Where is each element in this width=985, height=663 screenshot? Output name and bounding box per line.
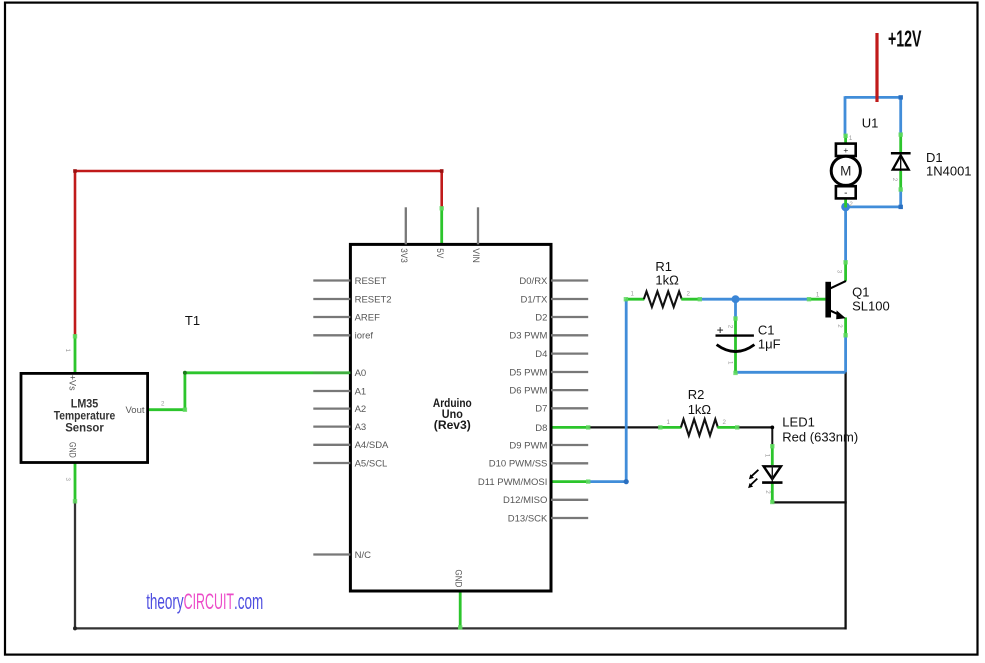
logo theoryCIRCUIT.com: [146, 589, 263, 614]
resistor R1 1k zigzag: [626, 291, 700, 307]
svg-text:GND: GND: [452, 570, 463, 588]
transistor Q1 SL100 NPN: [809, 261, 846, 337]
pin D13/SCK (Arduino right): [508, 513, 588, 524]
svg-text:1kΩ: 1kΩ: [655, 272, 679, 287]
wire blue: motor/diode top horizontal: [845, 96, 901, 99]
svg-text:D4: D4: [535, 349, 547, 360]
svg-text:D11 PWM/MOSI: D11 PWM/MOSI: [478, 477, 548, 488]
wire blue: R1 to Q1 base: [700, 298, 809, 301]
wire blue: Arduino D11 to riser: [588, 480, 626, 483]
label Arduino Uno (Rev3): [433, 396, 472, 432]
svg-text:1: 1: [726, 361, 733, 365]
pin D9 PWM (Arduino right): [509, 440, 588, 451]
svg-text:D0/RX: D0/RX: [519, 276, 548, 287]
svg-text:LED1: LED1: [782, 415, 815, 430]
svg-text:-: -: [844, 188, 847, 199]
wire red: down to LM35 +Vs: [74, 170, 77, 336]
wire green: Arduino 5V pin: [440, 207, 443, 245]
svg-text:3: 3: [836, 270, 843, 274]
wire green: +Vs pin of LM35: [74, 335, 77, 374]
wire green: Arduino D11 pin stub: [551, 480, 588, 483]
pin +Vs (LM35 top): [67, 375, 78, 391]
wire: R2 to LED corner: [737, 426, 772, 428]
svg-text:2: 2: [764, 490, 771, 494]
wire: LED cathode to right vertical: [772, 501, 846, 503]
svg-text:R2: R2: [688, 387, 705, 402]
svg-text:2: 2: [687, 291, 691, 298]
wire green: Vout up and over to A0: [185, 373, 351, 411]
pin A0 (Arduino left): [313, 368, 366, 379]
svg-text:C1: C1: [758, 323, 775, 338]
pin numbers (tiny gray): [64, 135, 898, 494]
resistor R2 1k zigzag: [660, 419, 737, 435]
svg-text:1kΩ: 1kΩ: [688, 402, 712, 417]
svg-text:AREF: AREF: [355, 312, 381, 323]
label R1 1k: [655, 259, 679, 288]
pin D8 (Arduino right): [535, 423, 547, 434]
wire blue: motor bottom node down to Q1 collector: [844, 207, 847, 263]
svg-text:D3 PWM: D3 PWM: [509, 331, 547, 342]
svg-text:3: 3: [64, 478, 71, 482]
svg-text:1N4001: 1N4001: [926, 164, 972, 179]
diode D1 1N4001: [891, 133, 911, 191]
svg-text:5V: 5V: [434, 248, 445, 259]
pin D6 PWM (Arduino right): [509, 386, 588, 397]
wire blue: top to diode cathode: [899, 96, 902, 134]
svg-text:+Vs: +Vs: [67, 375, 78, 391]
svg-text:ioref: ioref: [355, 331, 374, 342]
bendpoint blue top-right: [899, 95, 903, 99]
pin D10 PWM/SS (Arduino right): [489, 459, 588, 470]
svg-text:1: 1: [816, 291, 820, 298]
corner dots black: [770, 426, 774, 430]
svg-text:1μF: 1μF: [758, 337, 781, 352]
svg-text:A4/SDA: A4/SDA: [355, 440, 389, 451]
pin D2 (Arduino right): [535, 312, 588, 323]
pin N/C (Arduino left): [313, 550, 371, 561]
junction dot motor bottom node: [841, 203, 850, 212]
motor U1: [831, 134, 860, 207]
svg-text:A1: A1: [355, 386, 367, 397]
label LED1 Red 633nm: [782, 415, 858, 445]
svg-text:Red (633nm): Red (633nm): [782, 429, 858, 444]
svg-text:SL100: SL100: [852, 298, 890, 313]
pin AREF (Arduino left): [313, 312, 380, 323]
wire green: LM35 Vout stub: [147, 408, 185, 411]
wire red: 5V rail horizontal: [75, 170, 442, 173]
wire green: Arduino GND down to ground bus: [459, 591, 462, 628]
pin D11 PWM/MOSI (Arduino right): [478, 477, 548, 488]
svg-text:Q1: Q1: [852, 285, 869, 300]
pin 5V (Arduino top): [434, 248, 445, 259]
pin D4 (Arduino right): [535, 349, 588, 360]
bendpoint green Vout corner: [183, 371, 187, 375]
wire blue: C1 minus to emitter node horizontal: [736, 371, 846, 374]
svg-text:D5 PWM: D5 PWM: [509, 367, 547, 378]
svg-text:D7: D7: [535, 404, 547, 415]
svg-text:2: 2: [836, 324, 843, 328]
svg-text:RESET2: RESET2: [355, 294, 392, 305]
svg-text:+: +: [843, 145, 848, 155]
svg-text:T1: T1: [185, 313, 200, 328]
svg-text:D1/TX: D1/TX: [520, 294, 548, 305]
label R2 1k: [688, 387, 712, 417]
pin A4/SDA (Arduino left): [313, 440, 389, 451]
bendpoint blue riser bottom: [624, 479, 629, 484]
pin D3 PWM (Arduino right): [509, 331, 588, 342]
wire blue: riser up to R1 pin1: [625, 299, 628, 483]
wire green: Arduino D8 pin stub: [551, 426, 588, 429]
wire: corner down to LED anode: [771, 427, 773, 446]
pin D0/RX (Arduino right): [519, 276, 588, 287]
svg-text:A3: A3: [355, 422, 367, 433]
svg-text:3V3: 3V3: [398, 248, 409, 262]
pin RESET2 (Arduino left): [313, 294, 391, 305]
pin D12/MISO (Arduino right): [503, 495, 588, 506]
pin VIN (Arduino top): [470, 207, 481, 263]
pin D7 (Arduino right): [535, 404, 588, 415]
pin D1/TX (Arduino right): [520, 294, 588, 305]
svg-text:D9 PWM: D9 PWM: [509, 440, 547, 451]
svg-text:1: 1: [849, 135, 853, 142]
wire blue: top to motor pin1: [844, 96, 847, 135]
svg-text:Vout: Vout: [125, 405, 144, 416]
svg-text:(Rev3): (Rev3): [434, 418, 471, 432]
svg-text:+12V: +12V: [888, 25, 922, 51]
label T1: [185, 313, 200, 328]
wire blue: motor pin2 / diode anode bottom horizontal: [846, 205, 901, 208]
svg-text:A2: A2: [355, 404, 367, 415]
wire terminal dots: [73, 132, 903, 629]
temperature sensor LM35 box: [21, 373, 148, 462]
pin GND (LM35 bottom): [67, 442, 78, 458]
wire: LM35 GND down to ground bus: [74, 501, 76, 630]
bendpoint red right: [440, 169, 444, 173]
bendpoint red left: [73, 169, 77, 173]
wire: bottom ground bus: [75, 627, 846, 629]
pin GND (Arduino bottom): [452, 570, 463, 588]
LED emission arrows: [752, 470, 759, 476]
power +12V supply line: [875, 33, 878, 102]
label U1: [862, 116, 879, 131]
svg-text:1: 1: [64, 349, 71, 353]
svg-text:A5/SCL: A5/SCL: [355, 458, 388, 469]
svg-text:1: 1: [764, 454, 771, 458]
pin D5 PWM (Arduino right): [509, 367, 588, 378]
wire blue: base node down to C1: [734, 299, 737, 318]
svg-text:Sensor: Sensor: [65, 421, 104, 435]
svg-text:1: 1: [631, 291, 635, 298]
pin A5/SCL (Arduino left): [313, 458, 387, 469]
svg-text:D13/SCK: D13/SCK: [508, 513, 548, 524]
LED LED1 red: [748, 445, 782, 503]
svg-text:D10 PWM/SS: D10 PWM/SS: [489, 459, 548, 470]
label D1 1N4001: [926, 150, 972, 179]
svg-text:VIN: VIN: [470, 248, 481, 263]
svg-text:D8: D8: [535, 423, 547, 434]
svg-text:D2: D2: [535, 312, 547, 323]
label C1 1uF: [758, 323, 781, 352]
svg-text:2: 2: [726, 325, 733, 329]
svg-text:CIRCUIT: CIRCUIT: [184, 589, 234, 614]
svg-text:theory: theory: [146, 589, 183, 614]
svg-text:2: 2: [849, 201, 853, 208]
wire blue: Q1 emitter down to node: [844, 336, 847, 373]
label Q1 SL100: [852, 285, 890, 314]
wire: right side vertical from emitter node to ground bus: [844, 371, 846, 629]
svg-text:RESET: RESET: [355, 276, 387, 287]
junction dot base node: [732, 295, 740, 303]
IC Arduino Uno (Rev3) main board box: [350, 244, 551, 591]
pin RESET (Arduino left): [313, 276, 386, 287]
svg-text:+: +: [717, 323, 724, 337]
pin 3V3 (Arduino top): [398, 207, 409, 262]
wire green: LM35 GND pin: [74, 462, 77, 501]
wire: Arduino D8 to R2: [588, 426, 660, 428]
bendpoint blue bottom-right: [899, 205, 903, 209]
svg-text:U1: U1: [862, 116, 879, 131]
svg-text:N/C: N/C: [355, 550, 372, 561]
pin Vout (LM35 right): [125, 405, 144, 416]
svg-text:D12/MISO: D12/MISO: [503, 495, 547, 506]
svg-text:2: 2: [723, 419, 727, 426]
svg-text:A0: A0: [355, 368, 367, 379]
pin A2 (Arduino left): [313, 404, 366, 415]
svg-text:2: 2: [891, 178, 898, 182]
pin A1 (Arduino left): [313, 386, 366, 397]
capacitor C1 electrolytic: [716, 317, 755, 373]
svg-text:2: 2: [161, 401, 165, 408]
wire blue: diode anode down to bottom node: [899, 190, 902, 209]
svg-text:M: M: [840, 164, 851, 179]
svg-text:1: 1: [667, 419, 671, 426]
pin ioref (Arduino left): [313, 331, 373, 342]
svg-text:.com: .com: [234, 589, 263, 614]
wire red: down to Arduino 5V: [440, 170, 443, 208]
pin A3 (Arduino left): [313, 422, 366, 433]
svg-text:D6 PWM: D6 PWM: [509, 386, 547, 397]
svg-text:GND: GND: [67, 442, 78, 458]
